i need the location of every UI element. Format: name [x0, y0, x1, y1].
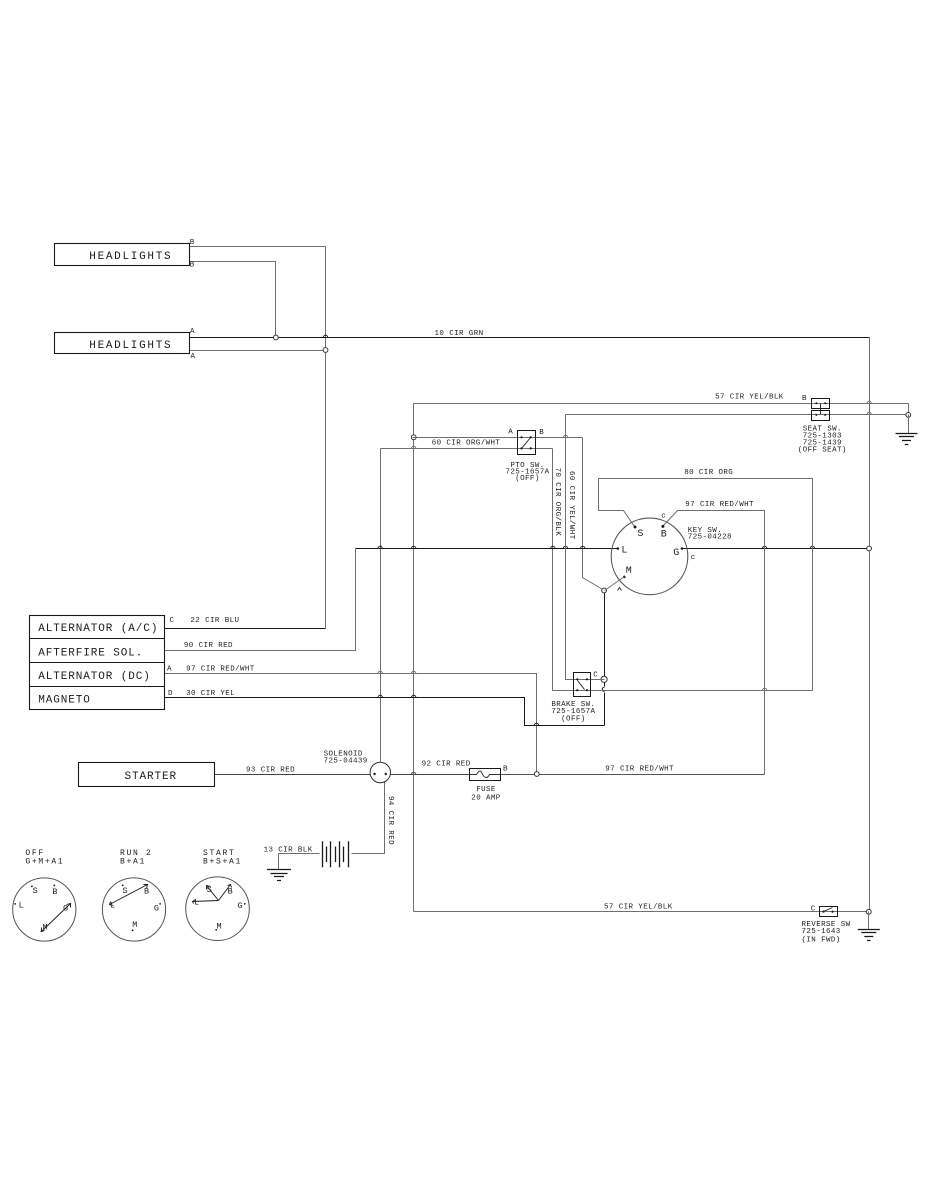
- ground symbol at seat switch: [896, 434, 918, 445]
- wire 60 CIR ORG/WHT into PTO A and out PTO B: [413, 437, 583, 439]
- diagram key position START: [186, 877, 250, 941]
- svg-text:30 CIR YEL: 30 CIR YEL: [186, 690, 235, 698]
- svg-text:93 CIR RED: 93 CIR RED: [246, 767, 295, 775]
- svg-text:M: M: [626, 566, 632, 577]
- junction circle lights/alternator AC node: [323, 348, 328, 353]
- wire 92 CIR RED solenoid to fuse: [391, 774, 470, 776]
- component key switch: [611, 518, 688, 595]
- svg-text:FUSE: FUSE: [476, 786, 496, 794]
- component fuse 20 AMP: [470, 769, 501, 781]
- svg-text:C: C: [811, 906, 816, 914]
- svg-text:60 CIR YEL/WHT: 60 CIR YEL/WHT: [567, 471, 575, 540]
- svg-text:92 CIR RED: 92 CIR RED: [422, 761, 471, 769]
- component PTO switch: [518, 431, 536, 455]
- svg-text:AFTERFIRE SOL.: AFTERFIRE SOL.: [38, 647, 143, 659]
- svg-text:94 CIR RED: 94 CIR RED: [386, 796, 394, 845]
- component reverse switch: [820, 907, 838, 917]
- svg-text:B: B: [661, 529, 667, 540]
- junction circle fuse output / alternator DC node: [534, 772, 539, 777]
- wire vertical from PTO B down to key M junction: [583, 438, 605, 591]
- svg-text:c: c: [661, 512, 666, 520]
- svg-text:B: B: [503, 766, 508, 774]
- svg-text:S: S: [33, 886, 38, 896]
- svg-text:S: S: [122, 886, 127, 896]
- lever OFF M to G: [42, 904, 71, 932]
- svg-text:(OFF): (OFF): [561, 716, 586, 724]
- wire key L main horizontal (left part): [356, 548, 617, 550]
- junction circle headlight B/A node: [273, 335, 278, 340]
- svg-text:MAGNETO: MAGNETO: [38, 694, 91, 706]
- svg-text:L: L: [194, 898, 199, 908]
- svg-text:70 CIR ORG/BLK: 70 CIR ORG/BLK: [553, 468, 561, 537]
- svg-text:M: M: [216, 922, 221, 932]
- svg-text:B: B: [190, 239, 195, 247]
- wire vertical 70 CIR ORG/BLK x=552.8: [552, 449, 554, 691]
- svg-text:STARTER: STARTER: [125, 771, 178, 783]
- svg-text:B+A1: B+A1: [120, 858, 146, 867]
- svg-text:57 CIR YEL/BLK: 57 CIR YEL/BLK: [715, 393, 784, 401]
- svg-text:13 CIR BLK: 13 CIR BLK: [264, 846, 313, 854]
- svg-text:22 CIR BLU: 22 CIR BLU: [190, 617, 239, 625]
- svg-text:S: S: [637, 529, 643, 540]
- wire brake top 60 CIR YEL/WHT vertical and into brake: [566, 415, 605, 680]
- wire 80 CIR ORG from key S terminal: [599, 479, 813, 691]
- hop seat top wire over x=869.1: [867, 401, 871, 403]
- wire vertical 10 CIR GRN right riser x=869.1: [869, 338, 871, 912]
- svg-text:725-1643: 725-1643: [802, 928, 841, 936]
- svg-text:80 CIR ORG: 80 CIR ORG: [684, 469, 733, 477]
- hop 10 CIR GRN over x=325.5: [323, 335, 327, 337]
- svg-text:G: G: [237, 901, 242, 911]
- junction circle key M node: [602, 588, 607, 593]
- wire 97 CIR RED/WHT alternator DC: [165, 674, 537, 775]
- hop seat bottom wire over x=869.1: [867, 412, 871, 414]
- hops on key G wire: [762, 546, 766, 548]
- wire solenoid coil bottom 94 CIR RED to battery: [352, 782, 385, 854]
- wire 57 CIR YEL/BLK bottom horizontal to reverse switch: [414, 911, 869, 913]
- key switch terminal dots S B L G M: [634, 526, 637, 529]
- component headlights box 1: [55, 244, 190, 266]
- hops on alternator DC wire: [378, 671, 382, 673]
- ground symbol at battery: [267, 870, 291, 881]
- svg-text:C: C: [593, 672, 598, 680]
- svg-text:A: A: [167, 666, 172, 674]
- lever RUN2 L to B: [110, 885, 148, 905]
- wire 10 CIR GRN horizontal: [190, 337, 870, 339]
- wire headlight1 B bottom: [190, 262, 276, 338]
- junction circle PTO A tap on 57 net: [411, 435, 416, 440]
- svg-text:(OFF): (OFF): [515, 475, 540, 483]
- svg-text:A: A: [508, 429, 513, 437]
- ground symbol at reverse switch: [858, 930, 880, 941]
- wire 30 CIR YEL magneto to kill net: [165, 698, 605, 726]
- svg-text:G+M+A1: G+M+A1: [25, 858, 64, 867]
- wire seat bottom 60 CIR YEL/WHT horizontal: [566, 414, 909, 416]
- svg-text:97 CIR RED/WHT: 97 CIR RED/WHT: [186, 666, 255, 674]
- levers START pivot to L S B: [193, 901, 219, 902]
- component seat switch: [812, 399, 830, 409]
- hop kill vertical over brake bottom wire: [602, 687, 604, 691]
- wire headlight1 B top (to 22 CIR BLU vertical): [190, 246, 326, 248]
- wire 57 CIR YEL/BLK seat top horizontal: [414, 403, 909, 405]
- junction circle reverse switch ground node: [866, 909, 871, 914]
- wire seat right corner down to ground node: [908, 404, 910, 415]
- svg-text:20 AMP: 20 AMP: [471, 795, 501, 803]
- svg-text:B: B: [190, 262, 195, 270]
- svg-text:10 CIR GRN: 10 CIR GRN: [435, 330, 484, 338]
- junction circle seat switch ground node: [906, 413, 911, 418]
- hop PTO bottom wire over x=413.7: [412, 446, 416, 448]
- wire fuse to junction to key-B riser (97 CIR RED/WHT): [501, 774, 765, 776]
- svg-text:725-04439: 725-04439: [324, 757, 368, 765]
- svg-text:B: B: [539, 429, 544, 437]
- svg-text:B+S+A1: B+S+A1: [203, 858, 242, 867]
- wire brake bottom / 80 CIR ORG lower horizontal: [553, 690, 813, 692]
- hops on magneto wire: [378, 695, 382, 697]
- svg-text:c: c: [691, 554, 696, 562]
- svg-text:D: D: [168, 690, 173, 698]
- svg-text:L: L: [621, 545, 627, 556]
- wire solenoid coil vertical x=380.15: [380, 449, 382, 763]
- hop PTO B wire over x=565.5: [563, 435, 567, 437]
- wire battery negative 13 CIR BLK to ground: [279, 854, 320, 870]
- wire 97 CIR RED/WHT from key B to fuse output: [663, 511, 765, 775]
- svg-text:57 CIR YEL/BLK: 57 CIR YEL/BLK: [604, 903, 673, 911]
- svg-text:(OFF SEAT): (OFF SEAT): [798, 447, 847, 455]
- wire key M diagonal to junction: [605, 577, 625, 591]
- hop brake bottom wire over x=764.6: [762, 688, 766, 690]
- svg-text:M: M: [132, 920, 137, 930]
- hops on key L wire: [378, 546, 382, 548]
- junction circle G wire on right vertical: [867, 546, 872, 551]
- svg-text:90 CIR RED: 90 CIR RED: [184, 642, 233, 650]
- svg-text:HEADLIGHTS: HEADLIGHTS: [89, 251, 172, 263]
- key switch A terminal arrow: [618, 588, 622, 591]
- wire 93 CIR RED starter to solenoid: [215, 774, 371, 776]
- svg-text:ALTERNATOR (DC): ALTERNATOR (DC): [38, 671, 151, 683]
- wire stub to seat ground: [908, 415, 910, 434]
- svg-text:B: B: [52, 887, 57, 897]
- svg-text:A: A: [191, 353, 196, 361]
- svg-text:G: G: [154, 903, 159, 913]
- wire key G horizontal to right vertical: [682, 548, 870, 550]
- diagram key position OFF: [13, 878, 76, 941]
- wire vertical 22 CIR BLU net x=325.5: [325, 247, 327, 629]
- svg-text:(IN FWD): (IN FWD): [802, 936, 841, 944]
- svg-text:B: B: [802, 395, 807, 403]
- svg-text:60 CIR ORG/WHT: 60 CIR ORG/WHT: [432, 440, 501, 448]
- component headlights box 2: [55, 333, 190, 354]
- wire 90 CIR RED afterfire to key L: [165, 549, 356, 651]
- svg-text:725-04228: 725-04228: [688, 534, 732, 542]
- wire PTO bottom 70 CIR ORG/BLK horizontal: [381, 448, 553, 450]
- component starter box: [79, 763, 215, 787]
- component brake switch: [574, 673, 591, 697]
- wire headlight2 A bottom: [190, 350, 326, 352]
- svg-text:ALTERNATOR (A/C): ALTERNATOR (A/C): [38, 623, 158, 635]
- svg-text:L: L: [19, 901, 24, 911]
- component battery: [323, 841, 349, 867]
- component block alternator AC / afterfire / alternator DC / magneto: [30, 616, 165, 710]
- svg-text:G: G: [673, 548, 679, 559]
- svg-text:97 CIR RED/WHT: 97 CIR RED/WHT: [685, 501, 754, 509]
- diagram key position RUN 2: [102, 878, 165, 941]
- hop 92 CIR RED over x=413.7: [412, 772, 416, 774]
- wire 22 CIR BLU alternator AC: [165, 628, 326, 630]
- svg-text:97 CIR RED/WHT: 97 CIR RED/WHT: [605, 766, 674, 774]
- wire stub reverse ground: [868, 912, 870, 930]
- svg-text:C: C: [170, 617, 175, 625]
- wire vertical 57 CIR YEL/BLK x=413.7: [413, 404, 415, 912]
- junction circle brake C node: [601, 676, 607, 682]
- svg-text:HEADLIGHTS: HEADLIGHTS: [89, 340, 172, 352]
- component solenoid: [370, 762, 390, 782]
- svg-text:A: A: [190, 328, 195, 336]
- wire kill net vertical x=604.1 key M to brake C to magneto: [604, 591, 606, 726]
